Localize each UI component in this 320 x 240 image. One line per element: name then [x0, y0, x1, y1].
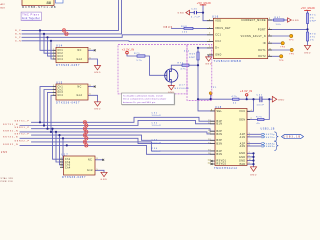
svg-text:U14: U14 — [56, 45, 63, 48]
svg-text:47k: 47k — [232, 96, 238, 98]
svg-text:Gnd: Gnd — [87, 170, 93, 172]
svg-text:R68: R68 — [181, 26, 187, 28]
svg-text:D_N: D_N — [15, 41, 21, 43]
svg-text:GND: GND — [304, 53, 311, 55]
svg-text:SSRXn: SSRXn — [266, 146, 276, 148]
svg-text:Ch2: Ch2 — [58, 89, 64, 91]
svg-text:To disable calibration mode, i: To disable calibration mode, install — [123, 94, 163, 97]
svg-text:B3P: B3P — [217, 140, 223, 142]
svg-text:Ch2: Ch2 — [65, 162, 71, 164]
svg-text:GND: GND — [239, 153, 245, 155]
svg-text:GND: GND — [178, 13, 185, 15]
svg-text:A1N: A1N — [240, 136, 246, 139]
svg-text:GND: GND — [205, 64, 212, 66]
svg-text:OUT2: OUT2 — [258, 56, 266, 58]
svg-text:NC: NC — [78, 50, 82, 52]
svg-text:R71: R71 — [134, 53, 140, 55]
svg-text:C31: C31 — [152, 112, 158, 114]
svg-text:USB3_1B: USB3_1B — [261, 127, 275, 130]
svg-text:DNP: DNP — [310, 21, 317, 23]
svg-text:MCHBB-NTC1-MB: MCHBB-NTC1-MB — [22, 6, 57, 9]
svg-text:GND: GND — [293, 20, 300, 22]
svg-text:2N5: 2N5 — [1, 152, 8, 154]
svg-text:+5V_MAIN: +5V_MAIN — [197, 2, 211, 5]
svg-text:88: 88 — [47, 0, 52, 5]
svg-text:Ch4: Ch4 — [65, 167, 71, 169]
svg-text:SSRX2_N: SSRX2_N — [3, 144, 18, 146]
svg-text:1%: 1% — [310, 18, 315, 20]
svg-text:Ch1: Ch1 — [58, 86, 64, 88]
svg-text:4k: 4k — [257, 123, 261, 125]
svg-text:VBUS_DET: VBUS_DET — [215, 28, 231, 30]
svg-text:A2P: A2P — [240, 142, 246, 145]
svg-text:47k: 47k — [310, 37, 316, 39]
svg-text:R7D: R7D — [310, 34, 317, 36]
svg-text:C41: C41 — [257, 94, 263, 96]
svg-text:GND: GND — [250, 175, 257, 177]
svg-text:VCC: VCC — [239, 111, 245, 113]
svg-text:Ch4: Ch4 — [58, 59, 64, 61]
svg-text:SSRX1_N: SSRX1_N — [3, 130, 18, 132]
svg-text:100nF: 100nF — [152, 151, 162, 153]
svg-text:U16: U16 — [212, 16, 219, 19]
svg-text:VDD: VDD — [215, 21, 221, 23]
svg-text:PORT: PORT — [258, 29, 266, 31]
svg-text:XTAL 32K: XTAL 32K — [1, 177, 14, 180]
svg-text:A1P: A1P — [240, 133, 246, 136]
svg-text:A12: A12 — [1, 3, 6, 6]
svg-text:TUSB320IRWBR: TUSB320IRWBR — [214, 60, 242, 63]
svg-text:TMUXHS4212: TMUXHS4212 — [214, 167, 238, 170]
svg-text:SSRX1_P: SSRX1_P — [15, 127, 30, 129]
svg-text:CURRENT_MODE: CURRENT_MODE — [241, 20, 266, 22]
svg-text:OEN: OEN — [239, 119, 245, 121]
svg-text:Ch2: Ch2 — [58, 53, 64, 55]
svg-text:CC1: CC1 — [215, 35, 221, 37]
svg-text:100nF: 100nF — [152, 115, 162, 117]
svg-text:4.7uF: 4.7uF — [191, 17, 201, 19]
svg-text:R72: R72 — [178, 63, 184, 65]
svg-text:GND: GND — [94, 72, 101, 74]
svg-text:R67: R67 — [275, 17, 281, 19]
svg-text:B2N: B2N — [217, 134, 223, 136]
svg-text:Ch3: Ch3 — [65, 165, 71, 167]
svg-text:Q17: Q17 — [179, 84, 185, 86]
svg-text:C40: C40 — [191, 8, 197, 10]
svg-text:SSTX2_P: SSTX2_P — [15, 134, 30, 136]
svg-text:ID: ID — [263, 43, 266, 45]
svg-text:47k: 47k — [181, 68, 187, 70]
svg-text:TP5: TP5 — [289, 54, 294, 56]
svg-text:B_N: B_N — [15, 34, 21, 36]
svg-text:10k: 10k — [182, 32, 188, 34]
svg-text:Gnd: Gnd — [77, 95, 83, 97]
svg-text:VBUS: VBUS — [163, 27, 173, 29]
svg-text:B3N: B3N — [217, 144, 223, 146]
svg-text:B1N: B1N — [217, 124, 223, 126]
svg-text:B4N: B4N — [217, 154, 223, 156]
svg-text:SEL: SEL — [217, 111, 223, 113]
svg-text:U15: U15 — [56, 81, 63, 84]
svg-text:C32: C32 — [152, 122, 158, 124]
svg-text:Ch3: Ch3 — [58, 92, 64, 94]
svg-text:B03: B03 — [1, 7, 6, 9]
svg-text:+3.3V_IN: +3.3V_IN — [240, 90, 252, 93]
svg-text:10nF: 10nF — [257, 104, 265, 106]
svg-text:R75: R75 — [256, 117, 262, 119]
svg-text:U18: U18 — [215, 106, 222, 109]
svg-text:TP4: TP4 — [280, 47, 285, 49]
svg-text:NC: NC — [78, 86, 82, 88]
svg-text:GND: GND — [101, 179, 108, 181]
svg-text:D_P: D_P — [15, 37, 21, 39]
svg-text:End Together: End Together — [22, 17, 40, 20]
svg-text:U17: U17 — [62, 153, 69, 156]
svg-text:TP3: TP3 — [289, 40, 294, 42]
svg-text:10k: 10k — [276, 24, 282, 26]
svg-text:VCONN_FAULT_N: VCONN_FAULT_N — [241, 35, 266, 38]
svg-text:R69: R69 — [189, 54, 195, 56]
svg-text:GND: GND — [239, 160, 245, 162]
svg-text:OUT1: OUT1 — [258, 50, 266, 52]
svg-text:C34: C34 — [152, 148, 158, 150]
svg-text:SSTX1_N: SSTX1_N — [3, 124, 18, 126]
svg-text:SSTX2_N: SSTX2_N — [3, 137, 18, 139]
svg-text:Ch1: Ch1 — [65, 159, 71, 161]
svg-text:Ch3: Ch3 — [58, 56, 64, 58]
svg-text:NC: NC — [88, 160, 92, 162]
svg-text:between D+ pin and SEL pin: between D+ pin and SEL pin — [123, 101, 156, 104]
svg-text:GND: GND — [215, 55, 221, 57]
svg-text:DNP: DNP — [189, 57, 196, 59]
svg-text:A2N: A2N — [240, 145, 246, 148]
svg-text:+5V_MAIN: +5V_MAIN — [301, 7, 315, 10]
svg-text:RSVD1: RSVD1 — [217, 161, 227, 163]
svg-text:DTXS36-0457: DTXS36-0457 — [62, 176, 86, 179]
svg-text:B4P: B4P — [217, 151, 223, 153]
svg-text:these components and remove ju: these components and remove jumper — [123, 98, 167, 101]
svg-text:GND: GND — [278, 99, 285, 101]
svg-text:100nF: 100nF — [152, 125, 162, 127]
svg-text:RSVD2: RSVD2 — [217, 164, 227, 166]
svg-text:SSRX2_P: SSRX2_P — [15, 140, 30, 142]
svg-text:Gnd: Gnd — [77, 59, 83, 61]
svg-text:DTXS36-0457: DTXS36-0457 — [56, 64, 80, 67]
svg-text:Ch4: Ch4 — [58, 95, 64, 97]
svg-text:R7C: R7C — [310, 15, 317, 17]
svg-text:Ch1: Ch1 — [58, 50, 64, 52]
svg-text:PAD: PAD — [240, 163, 246, 166]
svg-text:4k: 4k — [233, 102, 237, 104]
svg-text:57k: 57k — [137, 60, 143, 62]
svg-text:B_P: B_P — [15, 30, 21, 32]
svg-text:SSTX1_P: SSTX1_P — [15, 121, 30, 123]
svg-text:+3.3V_IN: +3.3V_IN — [122, 48, 134, 51]
svg-text:D+: D+ — [215, 48, 219, 50]
svg-text:CC2: CC2 — [215, 41, 221, 43]
svg-text:C33: C33 — [152, 140, 158, 142]
svg-text:PWR 1V8: PWR 1V8 — [1, 181, 14, 182]
svg-text:B2P: B2P — [217, 131, 223, 133]
svg-text:SSTXn: SSTXn — [266, 137, 276, 139]
svg-text:USB3_1B: USB3_1B — [284, 136, 302, 139]
svg-text:100nF: 100nF — [152, 142, 162, 144]
svg-text:GND: GND — [94, 109, 101, 111]
svg-text:DTXS36-0457: DTXS36-0457 — [56, 101, 80, 104]
svg-text:GND: GND — [239, 157, 245, 159]
svg-text:TP6: TP6 — [279, 60, 284, 62]
svg-text:1%: 1% — [310, 40, 315, 42]
